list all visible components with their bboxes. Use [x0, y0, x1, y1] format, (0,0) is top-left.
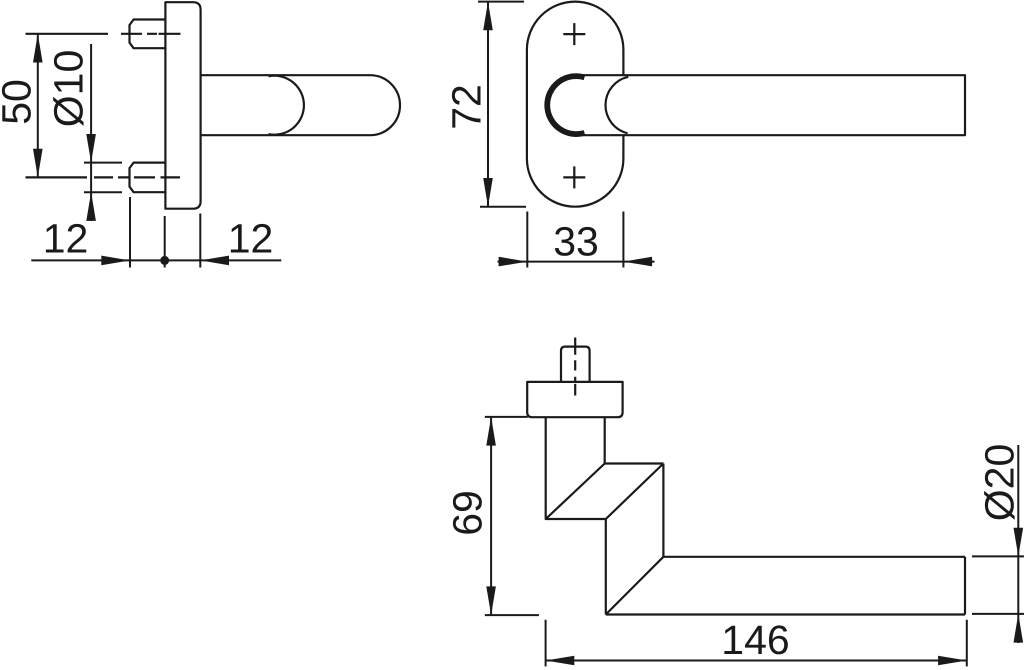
svg-text:33: 33	[553, 219, 599, 265]
view 1: rosette side view plate	[165, 2, 200, 209]
view 2: handle grip bar	[581, 75, 965, 135]
dimension 72 extension lines	[478, 2, 526, 207]
svg-text:12: 12	[43, 216, 89, 262]
dimension 33 extension lines	[527, 212, 623, 268]
svg-text:Ø10: Ø10	[46, 50, 92, 128]
arrow 33 right	[623, 257, 652, 267]
dimension Ø20 line	[1017, 445, 1019, 643]
arrow 69 top	[486, 417, 496, 446]
dimension 69 line	[490, 417, 492, 615]
arrow 12 right	[200, 256, 229, 266]
arrow 72 top	[483, 2, 493, 31]
view 1: top fixing screw	[130, 20, 166, 49]
view 3: grip bar	[606, 557, 965, 615]
view 1: bottom screw centerline	[26, 176, 181, 178]
svg-text:50: 50	[0, 79, 40, 125]
dimension Ø10 extension lines	[84, 163, 122, 193]
dimension 146 line	[546, 660, 967, 662]
view 2: top screw mark	[563, 23, 585, 45]
arrow 146 left	[546, 656, 575, 666]
svg-text:72: 72	[444, 84, 490, 130]
view 3: spindle centerline	[574, 338, 576, 396]
dimension 69 extension lines	[485, 417, 539, 615]
dimension Ø10 line	[90, 44, 92, 221]
view 1: bottom fixing screw	[130, 163, 166, 193]
view 1: handle neck bar	[201, 75, 400, 135]
dimension Ø20 extension lines	[972, 556, 1024, 614]
dimension 50 line	[37, 34, 39, 178]
dimension 12/12 line	[31, 259, 281, 261]
arrow 50 top	[33, 34, 43, 63]
svg-text:12: 12	[228, 216, 274, 262]
arrow 12 left	[101, 256, 130, 266]
dimension 72 line	[487, 2, 489, 207]
view 2: grip bend arc	[605, 77, 628, 134]
svg-text:Ø20: Ø20	[977, 444, 1023, 522]
view 3: spindle	[561, 347, 590, 382]
svg-text:146: 146	[721, 617, 789, 663]
view 3: rosette flange	[527, 382, 622, 417]
view 1: grip bend arc	[269, 76, 304, 135]
arrow 69 bottom	[486, 586, 496, 615]
view 3: grip bend diagonal	[606, 557, 664, 615]
view 2: oval rosette	[527, 2, 624, 207]
arrow 146 right	[938, 656, 967, 666]
arrow 50 bottom	[33, 149, 43, 178]
view 2: bottom screw mark	[563, 166, 585, 188]
view 2: handle neck circle	[547, 76, 584, 134]
view 3: handle neck and bend outline	[546, 417, 605, 519]
arrow 72 bottom	[483, 178, 493, 207]
dimension 12/12 extension lines	[130, 197, 200, 268]
arrow Ø10 upper	[86, 134, 96, 163]
view 1: top screw centerline	[26, 33, 181, 35]
arrow 33 left	[499, 257, 528, 267]
arrow Ø10 lower	[86, 192, 96, 221]
dimension 146 extension lines	[546, 620, 967, 667]
arrow Ø20 upper	[1014, 528, 1024, 557]
dimension 33 line	[498, 261, 655, 263]
svg-text:69: 69	[445, 490, 491, 536]
junction dot 12/12	[160, 256, 169, 265]
arrow Ø20 lower	[1014, 614, 1024, 643]
